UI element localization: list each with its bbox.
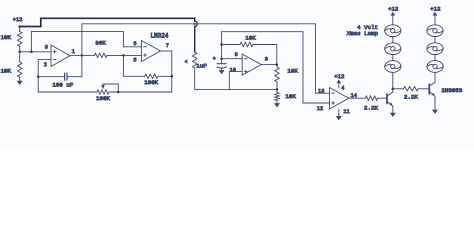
potentiometer R6 (from +12 rail) (193, 52, 197, 89)
resistor R4 36K (82, 40, 124, 58)
resistor R5 100K (hysteresis feedback) (144, 74, 172, 86)
op-amp U1D (pins 13,12,14) (330, 88, 357, 110)
svg-text:10K: 10K (285, 93, 296, 100)
svg-text:36K: 36K (95, 40, 106, 47)
node pot wiper tie (117, 91, 120, 94)
wire divider to pin3 (20, 51, 51, 53)
ground below R2 (17, 81, 23, 85)
wire pin2 node down to 100K pot wire (38, 77, 97, 92)
resistor R11 2.2K cascade (393, 87, 430, 101)
node divider mid (276, 88, 279, 91)
node +12 supply (left) (13, 17, 23, 28)
svg-text:10K: 10K (1, 34, 12, 41)
svg-text:4: 4 (341, 86, 344, 92)
node divider midpoint (18, 51, 21, 54)
wire lamp gap (434, 55, 436, 61)
svg-text:10K: 10K (1, 67, 12, 74)
wire cap-top line to op-amp4 pin12 (222, 32, 330, 103)
svg-text:11: 11 (343, 109, 349, 115)
lamp L3 (385, 61, 401, 73)
svg-text:7: 7 (166, 43, 169, 49)
wire cap node to pin9 (222, 58, 243, 60)
wire op-amp2 output (161, 50, 172, 52)
node feedback to output drop (171, 75, 174, 78)
node output/feedback (276, 63, 279, 66)
node hysteresis branch (30, 51, 33, 54)
transistor Q1 2N3053 (column 1 driver) (387, 92, 396, 117)
wire op-amp1 output (70, 54, 82, 56)
wire op-amp4 output (349, 97, 366, 99)
svg-text:+12: +12 (388, 5, 399, 12)
wire rail drop with hop over signal wire (195, 18, 198, 52)
resistor R7 10K feedback (222, 35, 277, 65)
wire lamp gap (392, 55, 394, 61)
svg-text:2N3053: 2N3053 (441, 87, 462, 94)
wire cap right side up to output (81, 55, 83, 76)
resistor R2 10K (lower divider) (1, 52, 22, 81)
op-amp U1B LM324 (pins 6,5,7) (133, 33, 168, 64)
svg-text:10K: 10K (287, 68, 298, 75)
svg-text:+: + (213, 56, 216, 62)
wire pot bottom to pin10/divider (195, 88, 277, 90)
svg-text:8: 8 (265, 56, 268, 62)
resistor R10 2.2K (364, 96, 387, 111)
node 36K / feedback junction (122, 54, 125, 57)
svg-text:3: 3 (45, 45, 48, 51)
svg-text:5: 5 (133, 57, 136, 63)
svg-text:10K: 10K (245, 35, 256, 42)
svg-text:2: 2 (44, 62, 47, 68)
capacitor C2 1uF w/ ground (213, 32, 227, 70)
lamp L6 (427, 61, 443, 73)
wire pin3 node up/right to op-amp2 pin6 (31, 31, 141, 51)
node cap/pot junction at pin2 (37, 75, 40, 78)
svg-text:9: 9 (235, 52, 238, 58)
wire lamp gap (392, 37, 394, 43)
potentiometer R3 100K speed (96, 84, 118, 102)
svg-text:100 uF: 100 uF (52, 81, 73, 88)
wire junction to op-amp2 pin5 (123, 54, 141, 56)
svg-text:2.2K: 2.2K (404, 93, 418, 100)
svg-text:100K: 100K (96, 95, 110, 102)
capacitor C1 100uF (integrator) (38, 73, 82, 88)
node op-amp1 output junction (81, 54, 84, 57)
wire op-amp3 output (261, 64, 277, 66)
node +12 power pin 4 (334, 73, 345, 91)
wire signal line to op-amp4 pin13 (197, 24, 330, 93)
svg-text:10: 10 (230, 67, 236, 73)
wire pin10 to divider/pot wire (229, 72, 242, 90)
lamp L4 (427, 25, 443, 37)
wire junction down to 100K feedback (123, 55, 144, 76)
wire +12 rail to mid pot (20, 18, 195, 26)
op-amp U1C (pins 9,10,8) (230, 52, 268, 75)
wire pin2 from cap node (38, 60, 51, 77)
wire Q2 collector to lamp column 2 (434, 72, 436, 82)
wire Q1 collector to lamp column 1 (392, 72, 394, 92)
resistor R8 10K (divider top) (275, 65, 299, 90)
svg-text:Xmas Lamp: Xmas Lamp (347, 30, 379, 37)
svg-text:12: 12 (317, 106, 323, 112)
signal flow arrow into pin13 line (193, 22, 197, 25)
svg-text:13: 13 (318, 89, 324, 95)
svg-text:100K: 100K (144, 79, 158, 86)
node cap top / feedback branch (220, 43, 223, 46)
svg-text:1uF: 1uF (196, 63, 207, 70)
lamp L5 (427, 43, 443, 55)
node cascade branch (392, 88, 395, 91)
wiper arrow of R6 (184, 59, 187, 63)
wire lamp gap (434, 37, 436, 43)
svg-text:LM324: LM324 (150, 33, 168, 40)
ground pin 11 (336, 109, 350, 120)
wire pot to op-amp2 output drop (109, 51, 172, 92)
op-amp U1A (pins 3,2,1) (44, 45, 75, 68)
resistor R1 10K (upper divider) (1, 27, 22, 52)
transistor Q2 2N3053 (column 2 driver) (429, 82, 462, 114)
svg-text:+12: +12 (430, 5, 441, 12)
lamp L1 (385, 25, 401, 37)
node +12 supply lamp column 1 (388, 5, 399, 24)
resistor R9 10K (divider bottom) w/ ground (275, 89, 297, 103)
label 4 Volt Xmas Lamp (347, 24, 379, 37)
svg-text:1: 1 (72, 49, 75, 55)
node +12 supply lamp column 2 (430, 5, 441, 24)
svg-text:+12: +12 (13, 17, 23, 23)
svg-text:2.2K: 2.2K (364, 104, 378, 111)
node cap / pin9 (220, 57, 223, 60)
svg-text:6: 6 (133, 41, 136, 47)
svg-text:+12: +12 (334, 73, 345, 80)
wire output up to signal line to pin13 (82, 24, 193, 56)
lamp L2 (385, 43, 401, 55)
